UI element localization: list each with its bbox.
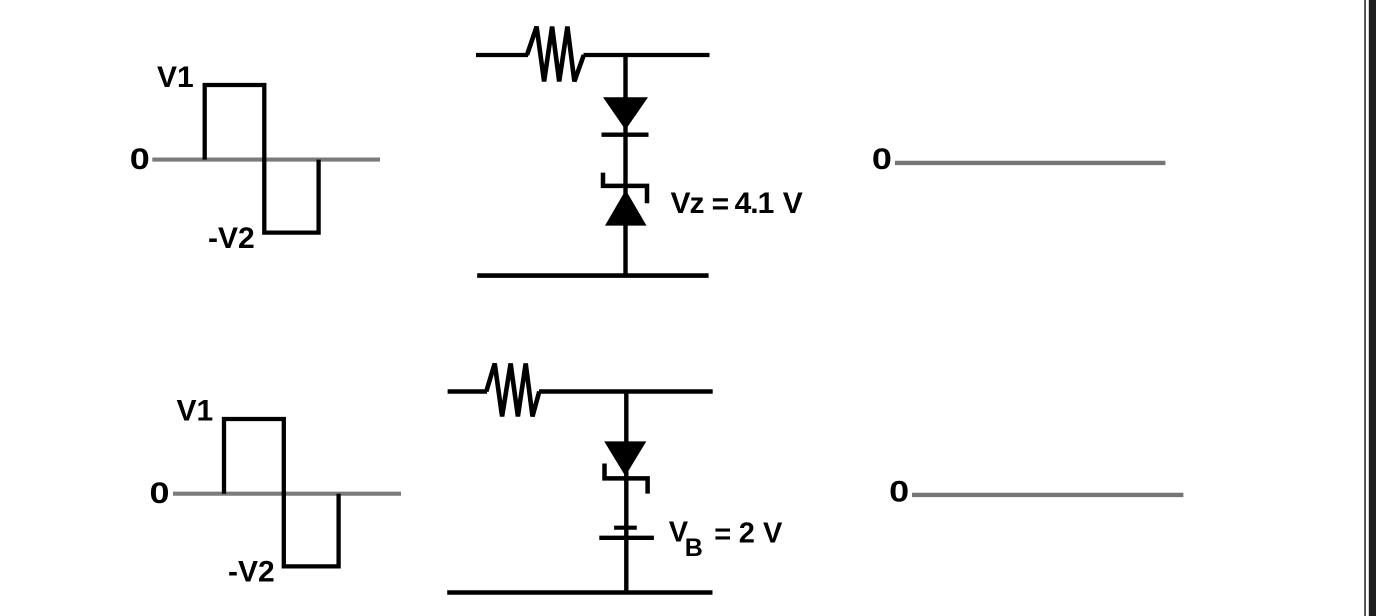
input 2 square-wave trace bbox=[224, 419, 339, 566]
input 1 zero axis bbox=[152, 158, 380, 162]
svg-text:=: = bbox=[714, 519, 731, 551]
diode D1 bbox=[602, 97, 649, 134]
svg-text:4.1: 4.1 bbox=[735, 187, 774, 220]
svg-text:-V2: -V2 bbox=[208, 222, 255, 255]
window edge line bbox=[1364, 0, 1366, 616]
input 2 zero axis bbox=[173, 492, 401, 496]
svg-text:0: 0 bbox=[872, 143, 892, 176]
svg-text:-V2: -V2 bbox=[228, 556, 275, 589]
wire: bottom rail row 1 bbox=[477, 273, 708, 278]
wire: R1 to node A bbox=[584, 53, 710, 57]
svg-text:0: 0 bbox=[889, 476, 909, 509]
wire: input lead row 2 bbox=[448, 389, 487, 393]
resistor R1 bbox=[527, 27, 584, 82]
svg-text:Vz: Vz bbox=[671, 187, 704, 220]
wire: R2 to node B bbox=[539, 389, 713, 393]
svg-text:V1: V1 bbox=[157, 61, 194, 94]
label Vz = 4.1 V bbox=[671, 187, 803, 221]
wire: vertical branch row 2 bbox=[624, 392, 628, 593]
wire: bottom rail row 2 bbox=[447, 590, 712, 595]
wire: vertical branch row 1 bbox=[623, 55, 627, 276]
svg-text:=: = bbox=[712, 188, 730, 221]
output 2 zero axis bbox=[912, 493, 1183, 497]
zener diode D2 bbox=[603, 173, 647, 226]
svg-text:B: B bbox=[685, 534, 703, 562]
wire: input lead row 1 bbox=[476, 53, 528, 57]
svg-text:2 V: 2 V bbox=[739, 517, 783, 549]
resistor R2 bbox=[486, 364, 539, 417]
svg-text:0: 0 bbox=[150, 477, 170, 510]
svg-text:V: V bbox=[783, 187, 803, 220]
battery VB bbox=[599, 528, 654, 538]
svg-text:V1: V1 bbox=[177, 395, 214, 428]
diode D3 bbox=[604, 441, 647, 493]
label VB = 2 V bbox=[669, 517, 783, 562]
output 1 zero axis bbox=[895, 161, 1166, 165]
scrollbar bbox=[1369, 0, 1376, 616]
input 1 square-wave trace bbox=[205, 85, 319, 233]
svg-text:0: 0 bbox=[130, 143, 150, 176]
